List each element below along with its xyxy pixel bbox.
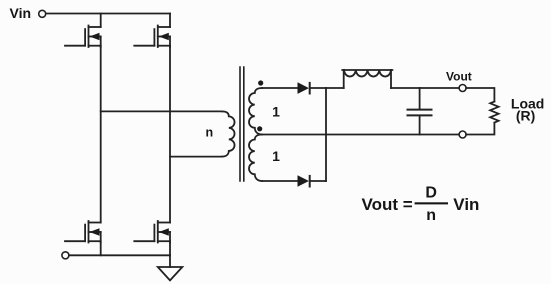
terminal Vin (39, 10, 46, 17)
svg-text:Vout: Vout (446, 70, 472, 84)
transformer T1 secondary winding bottom (249, 135, 262, 182)
diode D2 (298, 175, 310, 187)
transformer T1 core (240, 67, 244, 181)
wire Q4 source (169, 243, 171, 256)
wire load bottom (466, 123, 494, 135)
terminal Vout (459, 85, 466, 92)
wire Vout to load (466, 88, 494, 102)
transformer T1 secondary winding top (249, 88, 262, 135)
svg-text:n: n (205, 126, 213, 140)
transistor Q2 (134, 26, 170, 48)
svg-text:1: 1 (272, 104, 280, 120)
svg-text:Vout =: Vout = (362, 195, 413, 214)
capacitor C1 (408, 88, 432, 135)
formula Vout = D/n Vin (362, 184, 480, 224)
wire center tap rail (262, 134, 459, 136)
wire primary top (101, 110, 222, 112)
wire right rail (169, 46, 171, 223)
transistor Q4 (134, 221, 170, 243)
transistor Q3 (65, 221, 101, 243)
label Load (R) (511, 96, 544, 124)
svg-text:n: n (426, 207, 436, 224)
transistor Q1 (65, 26, 101, 48)
svg-text:Vin: Vin (10, 5, 32, 21)
polarity dot center (257, 126, 262, 131)
wire Q3 source (100, 243, 102, 256)
polarity dot top (258, 80, 263, 85)
transformer T1 primary winding (222, 111, 235, 156)
wire left rail (100, 46, 102, 223)
terminal bottom-left (62, 252, 69, 259)
wire Q1 drain (100, 14, 102, 28)
wire secondary top (262, 87, 297, 89)
wire top rail (46, 13, 170, 15)
wire secondary bottom (262, 180, 297, 182)
wire primary bottom (170, 156, 222, 158)
resistor Load (490, 102, 498, 123)
svg-text:1: 1 (272, 148, 280, 164)
wire inductor to Vout (391, 87, 459, 89)
wire bottom rail (69, 254, 170, 256)
wire D2 cathode (311, 180, 326, 182)
svg-text:D: D (425, 184, 437, 201)
svg-text:Vin: Vin (453, 195, 479, 214)
inductor L1 (342, 70, 392, 88)
terminal output negative (459, 131, 466, 138)
wire rectifier junction (325, 88, 327, 181)
diode D1 (298, 82, 310, 94)
svg-text:(R): (R) (516, 108, 535, 124)
wire ground stub (169, 255, 171, 267)
wire Q2 drain (169, 14, 171, 28)
wire D1 cathode (311, 87, 344, 89)
ground (158, 267, 183, 280)
